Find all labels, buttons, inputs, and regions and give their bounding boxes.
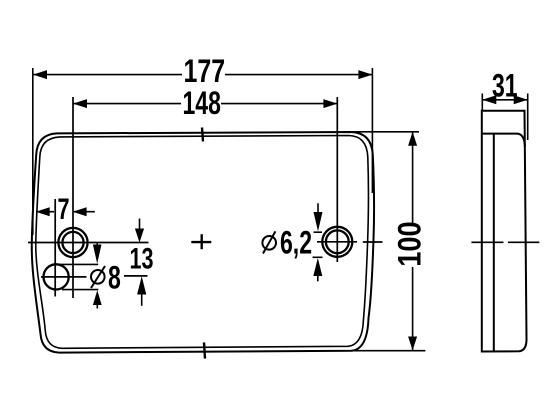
o6,2 bottom arrow — [317, 268, 319, 281]
o8 hole horizontal centerline — [41, 276, 87, 278]
hole o8 (single circle) — [44, 264, 69, 289]
177 left extension line — [32, 68, 34, 235]
svg-text:13: 13 — [130, 241, 154, 275]
center cross mark — [191, 234, 211, 249]
100 arrowheads — [408, 132, 417, 146]
side view lens step line with fillet — [482, 134, 525, 147]
o8 bottom arrow — [96, 302, 98, 309]
o8 top arrow — [96, 243, 98, 248]
177 dimension line — [33, 74, 182, 76]
100 top extension line — [350, 131, 419, 133]
31 right extension line — [527, 94, 529, 141]
svg-text:7: 7 — [58, 192, 70, 226]
177 arrowheads — [33, 70, 47, 79]
left mounting hole o6.2 (double circle) — [58, 228, 87, 257]
centerlines — [28, 97, 383, 298]
o6,2 label diameter symbol — [262, 231, 276, 253]
o8 hole vertical centerline / 7 boundary — [54, 199, 56, 297]
bottom center tick — [204, 342, 205, 358]
31 left extension line — [481, 94, 483, 112]
13 top arrow (points down at hole centerline) — [139, 219, 141, 232]
100 bottom extension line — [352, 350, 425, 352]
right hole vertical centerline / 148 extension — [336, 97, 338, 262]
right hole centerline dash crossing body edge — [363, 241, 383, 243]
31 dimension line — [482, 99, 527, 101]
o6,2 top arrow — [317, 203, 319, 213]
dimension 100 — [350, 132, 425, 351]
svg-text:8: 8 — [108, 260, 121, 296]
side view outline — [482, 111, 527, 352]
right hole horizontal centerline — [317, 241, 357, 243]
svg-text:148: 148 — [183, 85, 221, 121]
body outline outer (front view) — [32, 132, 374, 353]
177 right extension line — [371, 68, 373, 193]
right mounting hole o6.2 (double circle) — [322, 227, 352, 257]
o8 centerline second dash / 13 bottom boundary — [124, 275, 148, 277]
dimension o8 tangent lines — [52, 264, 98, 289]
side view inner vertical line — [493, 134, 495, 352]
left hole vertical centerline / 148 extension — [72, 97, 74, 298]
7 arrowheads — [36, 207, 50, 216]
dimension 148 — [73, 103, 337, 105]
top center tick — [202, 128, 203, 142]
left hole horizontal centerline / 13 top boundary — [28, 242, 149, 244]
31 arrowheads — [482, 95, 496, 104]
dimension 7 — [36, 211, 95, 213]
o8 label diameter symbol — [91, 266, 105, 288]
13 bottom arrow (points up at o8 centerline) — [141, 292, 143, 306]
svg-text:31: 31 — [492, 68, 518, 104]
dimension 177 — [33, 68, 373, 235]
100 dimension line — [412, 132, 414, 223]
side view centerline dashes — [471, 241, 539, 243]
dimension 31 — [482, 94, 527, 141]
svg-text:6,2: 6,2 — [280, 225, 312, 261]
dimension o6,2 tangent lines — [313, 232, 323, 257]
body outline inner (lens rim) — [36, 136, 369, 349]
svg-text:100: 100 — [392, 221, 428, 266]
148 arrowheads — [73, 99, 87, 108]
